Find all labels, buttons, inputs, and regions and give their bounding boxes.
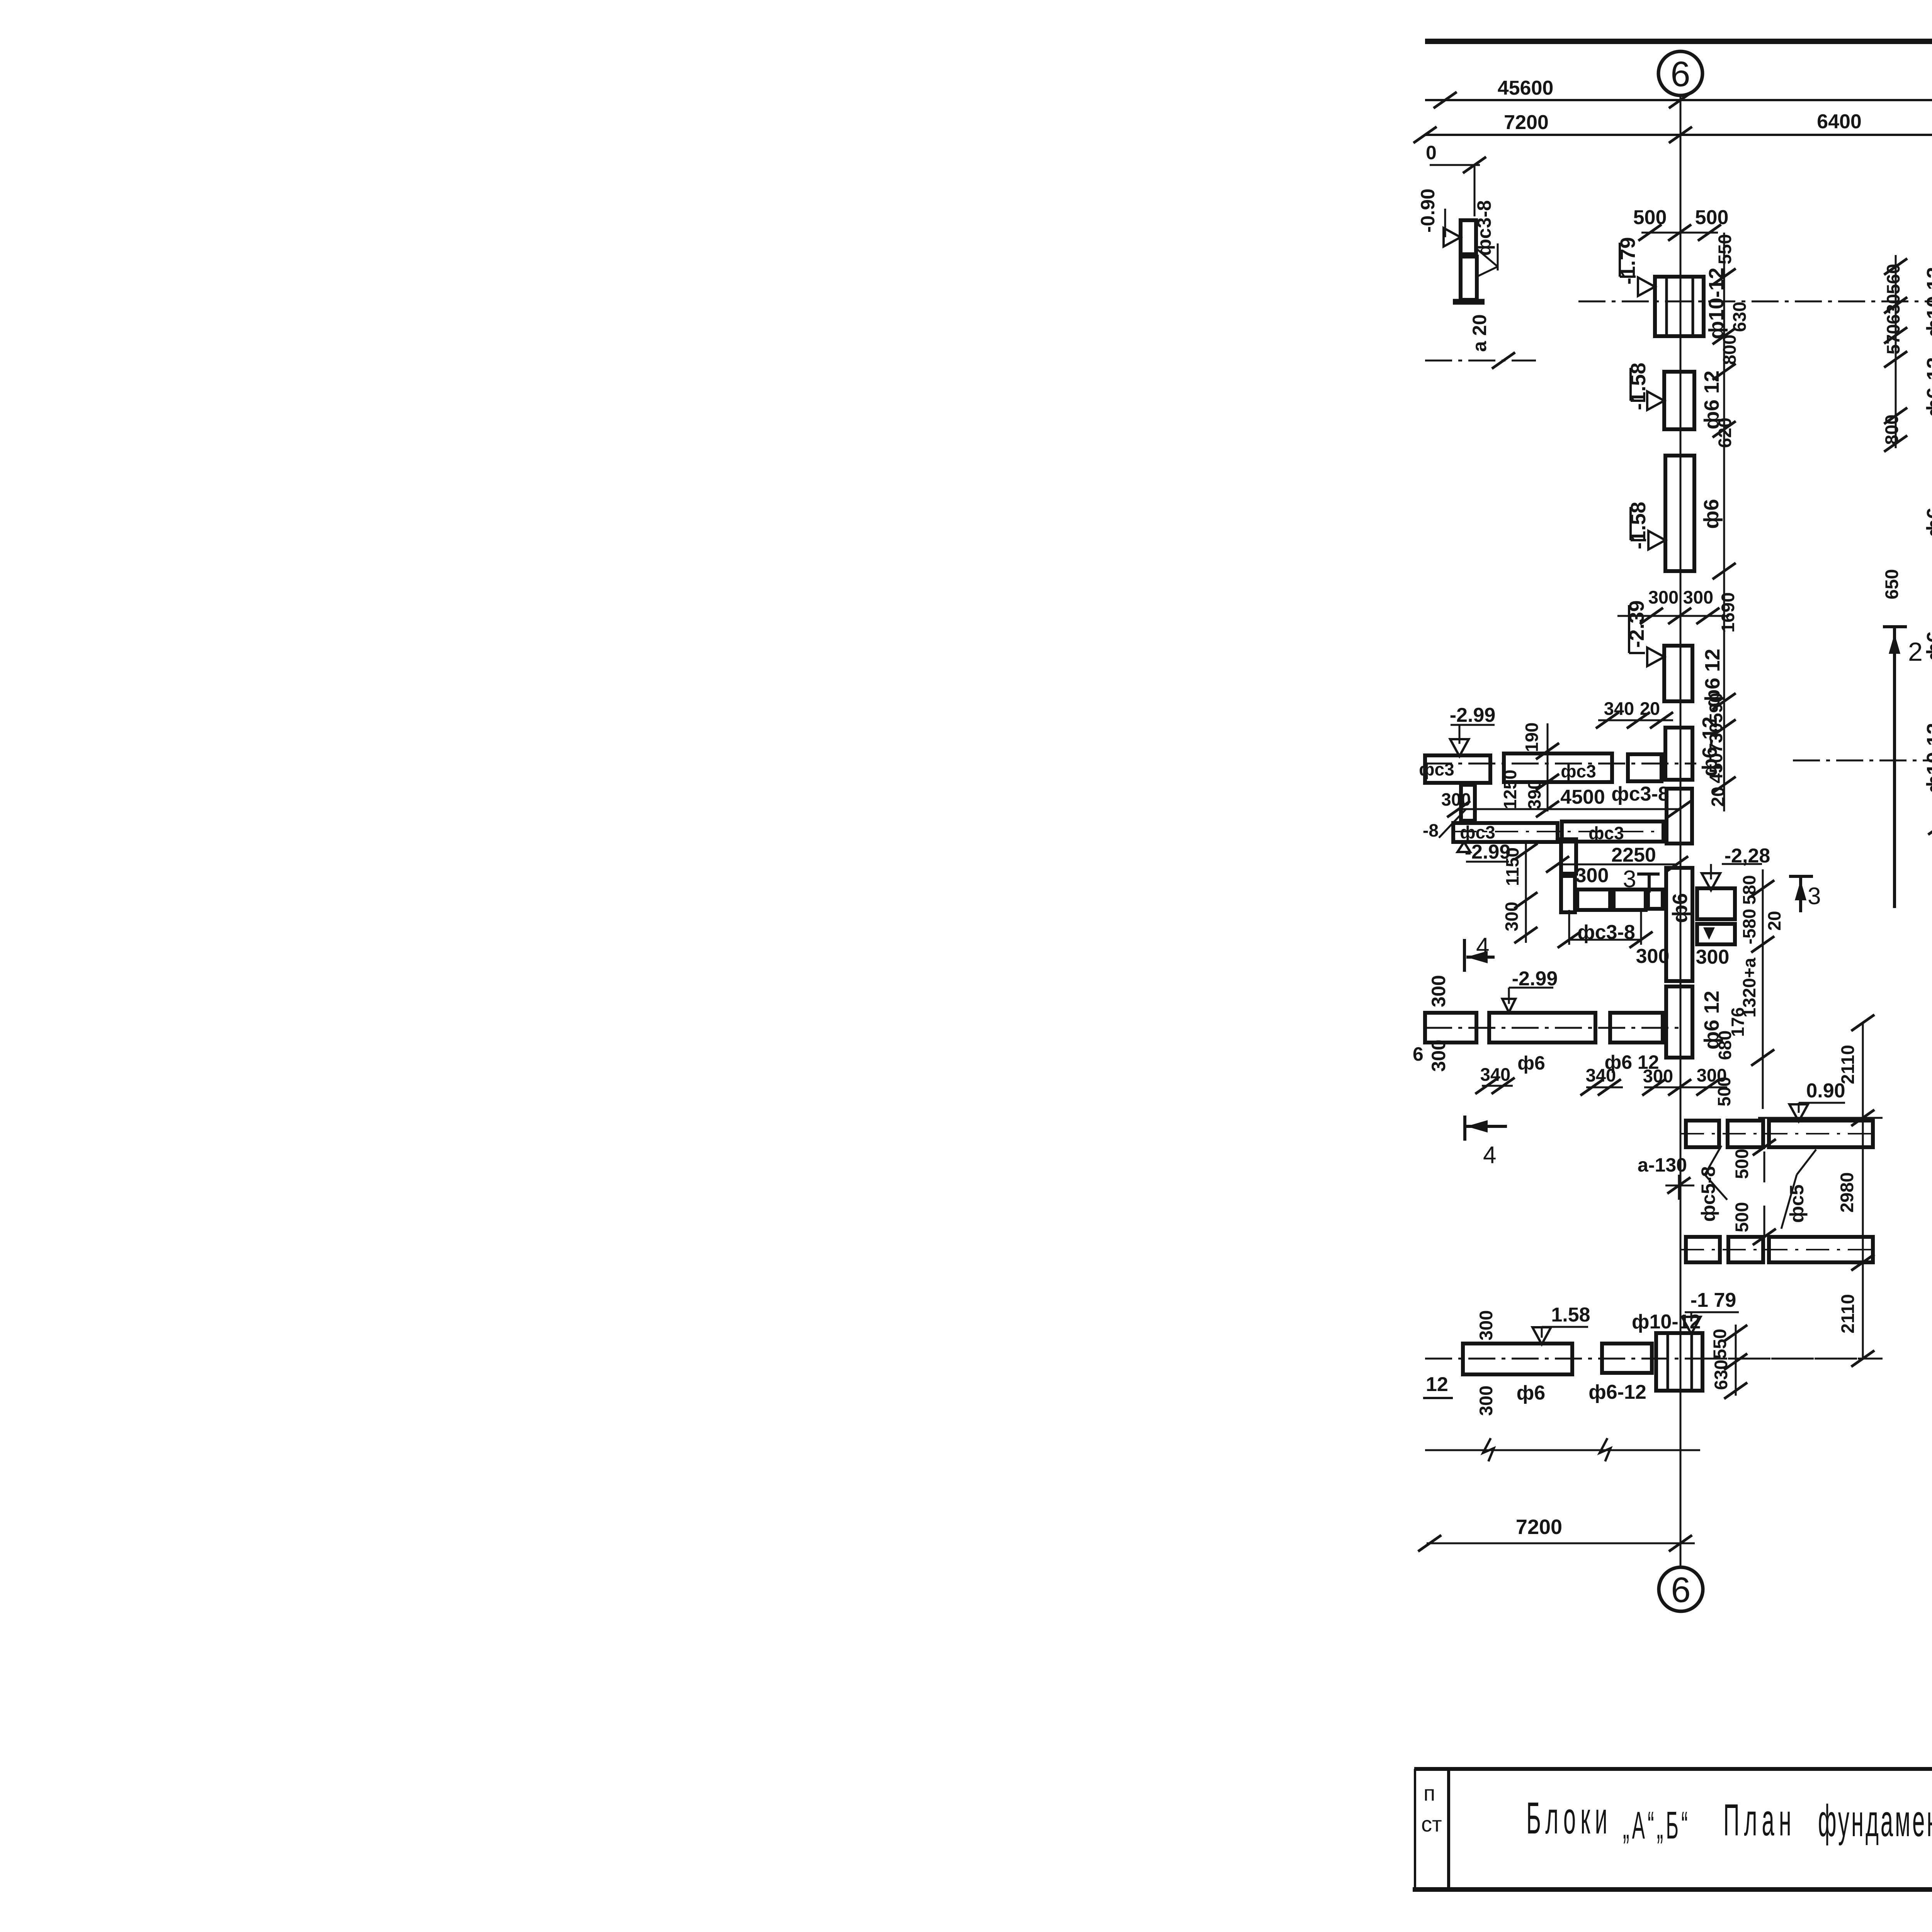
svg-text:1.58: 1.58 xyxy=(1551,1304,1590,1326)
svg-text:ф6-12: ф6-12 xyxy=(1588,1381,1646,1403)
svg-text:2250: 2250 xyxy=(1611,844,1656,866)
svg-text:ф6: ф6 xyxy=(1923,631,1932,661)
svg-text:2110: 2110 xyxy=(1837,1294,1858,1333)
svg-text:300: 300 xyxy=(1476,1386,1496,1416)
svg-text:0.90: 0.90 xyxy=(1806,1080,1845,1102)
svg-text:300: 300 xyxy=(1648,587,1679,607)
svg-text:500: 500 xyxy=(1731,1149,1752,1179)
svg-text:4500: 4500 xyxy=(1560,786,1605,808)
svg-text:20: 20 xyxy=(1764,911,1784,930)
svg-text:ф6: ф6 xyxy=(1517,1052,1545,1074)
svg-text:650: 650 xyxy=(1881,569,1902,599)
svg-text:фундаментов: фундаментов xyxy=(1818,1796,1932,1846)
svg-text:фс3: фс3 xyxy=(1561,761,1596,781)
svg-text:фс3: фс3 xyxy=(1588,823,1624,843)
svg-text:190: 190 xyxy=(1522,723,1542,752)
svg-text:500: 500 xyxy=(1695,206,1729,229)
svg-text:ф6: ф6 xyxy=(1668,893,1692,923)
svg-text:ф10 12: ф10 12 xyxy=(1923,723,1932,793)
svg-text:-580: -580 xyxy=(1739,909,1759,944)
svg-text:6: 6 xyxy=(1670,54,1690,94)
svg-text:ф6: ф6 xyxy=(1517,1382,1545,1404)
svg-text:п: п xyxy=(1423,1781,1435,1805)
svg-text:2980: 2980 xyxy=(1837,1172,1857,1213)
svg-text:6: 6 xyxy=(1413,1043,1423,1065)
svg-text:ф6: ф6 xyxy=(1923,507,1932,537)
svg-text:630: 630 xyxy=(1711,1360,1731,1390)
svg-text:12: 12 xyxy=(1426,1373,1448,1396)
svg-text:6: 6 xyxy=(1671,1570,1690,1610)
svg-text:а-130: а-130 xyxy=(1638,1154,1687,1176)
svg-text:-8: -8 xyxy=(1423,820,1439,840)
svg-text:фс5-8: фс5-8 xyxy=(1697,1166,1719,1222)
svg-text:450: 450 xyxy=(1706,753,1726,783)
svg-text:ф10 12: ф10 12 xyxy=(1923,267,1932,337)
svg-text:390: 390 xyxy=(1524,780,1544,810)
svg-text:6400: 6400 xyxy=(1817,111,1862,133)
svg-text:45600: 45600 xyxy=(1498,77,1554,99)
svg-text:фс3-8: фс3-8 xyxy=(1473,200,1495,256)
svg-text:ф6-12: ф6-12 xyxy=(1923,357,1932,417)
svg-text:300: 300 xyxy=(1683,587,1713,607)
svg-text:-1 79: -1 79 xyxy=(1690,1289,1736,1311)
svg-text:300: 300 xyxy=(1636,945,1670,968)
svg-text:7200: 7200 xyxy=(1504,111,1549,134)
svg-text:570: 570 xyxy=(1883,324,1903,354)
svg-text:План: План xyxy=(1723,1795,1796,1845)
svg-text:680: 680 xyxy=(1715,1031,1735,1060)
svg-text:2110: 2110 xyxy=(1837,1045,1858,1084)
svg-text:300: 300 xyxy=(1696,946,1730,968)
svg-text:3: 3 xyxy=(1623,866,1636,893)
svg-text:4: 4 xyxy=(1483,1142,1496,1168)
svg-text:7200: 7200 xyxy=(1516,1515,1562,1539)
svg-text:-2.99: -2.99 xyxy=(1450,704,1496,726)
svg-text:4: 4 xyxy=(1476,933,1489,960)
svg-text:фс3: фс3 xyxy=(1419,759,1454,779)
svg-text:1690: 1690 xyxy=(1718,592,1738,633)
svg-text:а 20: а 20 xyxy=(1469,314,1490,352)
svg-text:300: 300 xyxy=(1476,1310,1496,1340)
svg-text:ст: ст xyxy=(1421,1812,1442,1836)
svg-text:630: 630 xyxy=(1729,302,1750,332)
svg-text:-2.99: -2.99 xyxy=(1512,968,1558,990)
svg-text:300: 300 xyxy=(1428,1039,1449,1071)
svg-text:0: 0 xyxy=(1426,142,1437,163)
svg-text:фс3-8: фс3-8 xyxy=(1611,783,1669,805)
svg-text:„А“„Б“: „А“„Б“ xyxy=(1623,1803,1690,1847)
svg-text:300: 300 xyxy=(1575,864,1609,887)
svg-text:Блоки: Блоки xyxy=(1526,1793,1612,1843)
svg-text:ф6: ф6 xyxy=(1700,499,1723,529)
svg-text:580: 580 xyxy=(1739,875,1759,905)
svg-text:550: 550 xyxy=(1709,1329,1730,1359)
svg-text:500: 500 xyxy=(1731,1202,1752,1232)
svg-text:630: 630 xyxy=(1883,294,1903,324)
svg-text:300: 300 xyxy=(1441,789,1471,810)
svg-text:300: 300 xyxy=(1428,975,1449,1007)
svg-text:-0.90: -0.90 xyxy=(1417,189,1439,233)
svg-text:300: 300 xyxy=(1697,1065,1727,1085)
svg-text:2: 2 xyxy=(1908,637,1923,667)
svg-text:фс3: фс3 xyxy=(1460,822,1495,842)
svg-text:340: 340 xyxy=(1480,1064,1510,1085)
svg-text:3: 3 xyxy=(1808,883,1821,910)
svg-text:340: 340 xyxy=(1604,698,1634,719)
svg-text:1250: 1250 xyxy=(1500,770,1520,809)
